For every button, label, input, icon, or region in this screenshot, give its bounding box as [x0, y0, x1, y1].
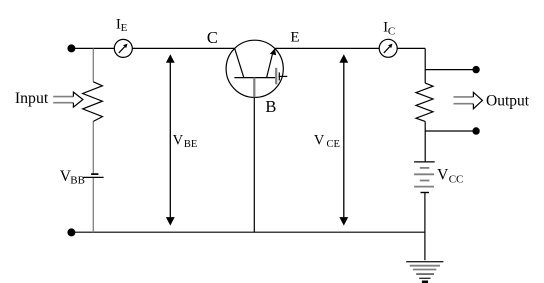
svg-text:B: B — [265, 97, 276, 116]
svg-text:V: V — [437, 166, 449, 183]
svg-text:BB: BB — [70, 175, 85, 187]
svg-text:CE: CE — [327, 139, 340, 150]
svg-text:E: E — [121, 22, 128, 34]
svg-text:V: V — [314, 133, 325, 149]
svg-text:CC: CC — [449, 173, 464, 185]
svg-text:V: V — [173, 132, 184, 148]
svg-text:Input: Input — [15, 90, 49, 107]
svg-text:C: C — [388, 25, 395, 37]
svg-text:E: E — [290, 29, 299, 45]
svg-text:BE: BE — [184, 139, 197, 150]
svg-text:C: C — [207, 28, 218, 47]
svg-text:Output: Output — [486, 92, 530, 109]
